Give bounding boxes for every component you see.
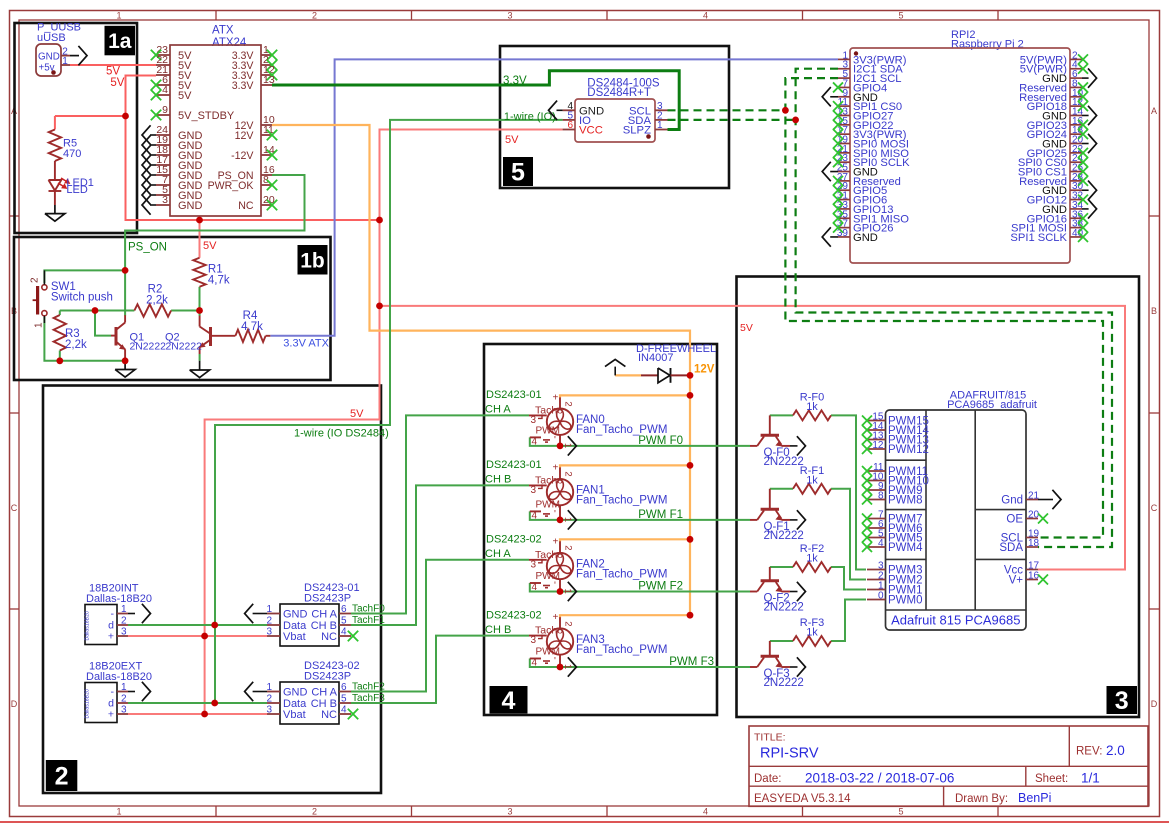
net label 5V (box3) bbox=[740, 322, 753, 334]
svg-text:SLPZ: SLPZ bbox=[623, 125, 651, 137]
ground flag 18B20INT pin1 bbox=[128, 604, 151, 623]
section box 1b bbox=[14, 237, 331, 380]
svg-text:1b: 1b bbox=[300, 249, 325, 272]
wire TachF2 bbox=[351, 560, 529, 692]
svg-text:1: 1 bbox=[116, 11, 121, 21]
svg-text:1: 1 bbox=[121, 604, 127, 615]
svg-text:1k: 1k bbox=[806, 627, 818, 639]
svg-text:3.3V: 3.3V bbox=[232, 80, 255, 92]
svg-text:3: 3 bbox=[531, 485, 537, 496]
svg-text:Tacho: Tacho bbox=[535, 474, 563, 486]
wire DS2484 SCL dashed bbox=[668, 109, 786, 111]
svg-text:4: 4 bbox=[502, 687, 516, 715]
ground flag FAN0 bbox=[568, 436, 577, 455]
wire TachF1 bbox=[351, 485, 529, 625]
wire diode anode 12V bbox=[615, 374, 641, 376]
svg-text:2,2k: 2,2k bbox=[146, 295, 168, 307]
net label 1-wire (IO DS2484) bbox=[294, 428, 389, 440]
svg-text:2: 2 bbox=[266, 616, 272, 627]
net label 5V (DS2484) bbox=[505, 134, 519, 146]
svg-text:TITLE:: TITLE: bbox=[754, 732, 786, 744]
ground Q2 bbox=[190, 361, 210, 378]
svg-text:5V_STDBY: 5V_STDBY bbox=[178, 110, 235, 122]
svg-text:Fan_Tacho_PWM: Fan_Tacho_PWM bbox=[576, 569, 667, 581]
wire R-F left leads bbox=[770, 415, 793, 641]
svg-text:Fan_Tacho_PWM: Fan_Tacho_PWM bbox=[576, 495, 667, 507]
svg-text:LED: LED bbox=[66, 184, 87, 196]
svg-text:Tacho: Tacho bbox=[535, 625, 563, 637]
svg-text:3: 3 bbox=[1115, 687, 1129, 715]
ground flag DS2484 pin4 bbox=[549, 101, 563, 120]
net label 5V (uUSB) bbox=[106, 66, 120, 78]
ground flag FAN1 bbox=[568, 510, 577, 529]
transistor Q-F1 2N2222 bbox=[750, 489, 804, 542]
wire 5V branch to R5 bbox=[55, 116, 126, 130]
svg-text:CH A: CH A bbox=[311, 609, 337, 621]
wire 5V net vertical x125 bbox=[126, 76, 380, 221]
svg-text:IN4007: IN4007 bbox=[638, 352, 673, 364]
svg-text:2: 2 bbox=[55, 763, 69, 791]
svg-text:4: 4 bbox=[703, 807, 708, 817]
svg-text:1: 1 bbox=[62, 56, 68, 67]
svg-text:1: 1 bbox=[116, 807, 121, 817]
svg-text:PWM12: PWM12 bbox=[888, 444, 929, 456]
wire 12V branch fan3 bbox=[560, 615, 690, 618]
section box 5 bbox=[500, 46, 729, 188]
svg-text:1: 1 bbox=[562, 589, 573, 594]
wire TachF3 bbox=[351, 636, 529, 703]
transistor Q-F0 2N2222 bbox=[750, 415, 804, 468]
transistor Q-F2 2N2222 bbox=[750, 567, 804, 614]
wire 12V branch fan1 bbox=[560, 465, 690, 468]
diode D-FREEWHEEL IN4007 bbox=[636, 343, 716, 383]
svg-text:5V: 5V bbox=[203, 240, 217, 252]
svg-text:TachF1: TachF1 bbox=[352, 615, 385, 626]
svg-text:2: 2 bbox=[312, 11, 317, 21]
svg-text:Fan_Tacho_PWM: Fan_Tacho_PWM bbox=[576, 424, 667, 436]
svg-text:3,3V: 3,3V bbox=[503, 75, 527, 87]
svg-text:Adafruit 815 PCA9685: Adafruit 815 PCA9685 bbox=[891, 613, 1020, 628]
svg-text:+: + bbox=[553, 536, 559, 547]
ground flag Q-F1 emitter bbox=[790, 510, 806, 529]
svg-text:Tacho: Tacho bbox=[535, 549, 563, 561]
svg-text:Dallas18B20: Dallas18B20 bbox=[85, 611, 91, 641]
svg-text:+: + bbox=[553, 462, 559, 473]
svg-text:ATX: ATX bbox=[212, 25, 234, 37]
wire Data row DS2423-01 bbox=[128, 624, 267, 626]
svg-text:C: C bbox=[1151, 503, 1158, 513]
net label TachF1 bbox=[352, 615, 385, 626]
wire PS_ON net from ATX pin16 bbox=[125, 175, 304, 316]
svg-text:NC: NC bbox=[321, 709, 337, 721]
net label 3.3V ATX bbox=[283, 338, 329, 350]
svg-text:+: + bbox=[108, 631, 114, 643]
wire PWM F3 bbox=[530, 659, 750, 668]
ground LED1 bbox=[45, 205, 65, 221]
svg-text:5V: 5V bbox=[106, 66, 120, 78]
title block bbox=[749, 726, 1148, 806]
svg-text:Dallas-18B20: Dallas-18B20 bbox=[86, 671, 152, 683]
net label 5V (pin21) bbox=[110, 77, 124, 89]
svg-text:D: D bbox=[1151, 699, 1158, 709]
svg-text:1: 1 bbox=[266, 682, 272, 693]
svg-text:TachF2: TachF2 bbox=[352, 682, 385, 693]
wire 12V branch fan0 bbox=[560, 395, 690, 398]
net label PWM F1 bbox=[638, 509, 683, 521]
wire Data row DS2423-02 bbox=[128, 702, 267, 704]
svg-text:2.0: 2.0 bbox=[1106, 743, 1125, 758]
svg-text:Fan_Tacho_PWM: Fan_Tacho_PWM bbox=[576, 644, 667, 656]
svg-text:4,7k: 4,7k bbox=[241, 321, 263, 333]
sensor 18B20INT Dallas-18B20 bbox=[85, 583, 153, 645]
wire 5V net uUSB to ATX pin22 bbox=[70, 64, 156, 66]
net label 12V bbox=[694, 364, 715, 376]
svg-text:DS2423-01: DS2423-01 bbox=[486, 459, 542, 471]
svg-text:2: 2 bbox=[121, 694, 127, 705]
wire R-F3 to PCA PWM0 bbox=[831, 600, 866, 642]
net label DS2423-01 CH A bbox=[485, 389, 542, 416]
section box 2 bbox=[43, 386, 381, 794]
net label DS2423-01 CH B bbox=[485, 459, 542, 486]
svg-text:A: A bbox=[1151, 106, 1157, 116]
net label PWM F0 bbox=[638, 435, 683, 447]
svg-text:2: 2 bbox=[312, 807, 317, 817]
svg-text:5V: 5V bbox=[110, 77, 124, 89]
svg-text:5: 5 bbox=[898, 11, 903, 21]
svg-text:1k: 1k bbox=[806, 401, 818, 413]
svg-text:GND: GND bbox=[853, 232, 878, 244]
fan FAN1 Fan_Tacho_PWM bbox=[529, 462, 667, 522]
svg-text:PWM F2: PWM F2 bbox=[638, 581, 683, 593]
wire 5V into box3 to PCA Vcc bbox=[380, 306, 1126, 570]
svg-text:13: 13 bbox=[263, 74, 275, 86]
svg-text:PS_ON: PS_ON bbox=[128, 242, 167, 254]
switch SW1 Switch push bbox=[30, 270, 113, 328]
svg-text:DS2423-02: DS2423-02 bbox=[486, 610, 542, 622]
ground Q1 bbox=[115, 361, 135, 377]
wire 5V vertical to DS2484 VCC and section2 bbox=[205, 130, 563, 715]
svg-text:': ' bbox=[554, 581, 556, 592]
svg-text:DS2423-02: DS2423-02 bbox=[486, 534, 542, 546]
connector RPI2 Raspberry Pi 2 bbox=[837, 29, 1084, 263]
svg-text:': ' bbox=[554, 435, 556, 446]
net label DS2423-02 CH A bbox=[485, 534, 542, 561]
ground flag 18B20EXT pin1 bbox=[128, 682, 151, 701]
svg-text:5V: 5V bbox=[178, 90, 192, 102]
svg-text:+: + bbox=[553, 392, 559, 403]
svg-text:PWM8: PWM8 bbox=[888, 495, 923, 507]
svg-text:1/1: 1/1 bbox=[1081, 771, 1100, 786]
transistor Q-F3 2N2222 bbox=[750, 641, 804, 689]
ground flag diode anode bbox=[605, 359, 625, 375]
svg-text:1k: 1k bbox=[806, 474, 818, 486]
svg-text:PWR_OK: PWR_OK bbox=[208, 180, 254, 192]
net label 5V (section2) bbox=[350, 408, 364, 420]
ground flag PCA9685 Gnd bbox=[1038, 490, 1061, 509]
net label 1-wire (IO) bbox=[504, 111, 556, 123]
svg-text:5V: 5V bbox=[505, 134, 519, 146]
svg-text:PWM: PWM bbox=[536, 499, 560, 510]
wire R3 bottom to gnd rail bbox=[59, 351, 61, 361]
net label PWM F3 bbox=[669, 656, 714, 668]
svg-text:3: 3 bbox=[531, 415, 537, 426]
svg-text:TachF0: TachF0 bbox=[352, 604, 385, 615]
svg-text:2: 2 bbox=[121, 616, 127, 627]
svg-text:GND: GND bbox=[283, 609, 308, 621]
resistor R-F3 1k bbox=[793, 617, 831, 646]
wire R-F0 to PCA PWM3 bbox=[831, 415, 866, 569]
svg-text:CH B: CH B bbox=[485, 624, 511, 636]
svg-text:-12V: -12V bbox=[231, 150, 254, 162]
svg-text:2N2222: 2N2222 bbox=[764, 677, 804, 689]
svg-text:uUSB: uUSB bbox=[37, 32, 66, 44]
resistor R2 2,2k bbox=[134, 284, 171, 317]
svg-text:TachF3: TachF3 bbox=[352, 693, 385, 704]
svg-text:2N2222: 2N2222 bbox=[764, 456, 804, 468]
fan FAN3 Fan_Tacho_PWM bbox=[529, 612, 667, 669]
net label 3,3V bbox=[503, 75, 527, 87]
svg-text:2N2222: 2N2222 bbox=[130, 342, 167, 353]
svg-text:3: 3 bbox=[531, 635, 537, 646]
wire I2C SDA dashed RPI pin3 to DS2484/PCA bbox=[796, 69, 1112, 547]
wire PWM F2 bbox=[530, 583, 750, 592]
connector ATX ATX24 bbox=[151, 25, 261, 217]
svg-text:16: 16 bbox=[1028, 571, 1040, 582]
transistor Q1 2N2222 bbox=[111, 315, 166, 361]
wire PWM F1 bbox=[530, 511, 750, 520]
svg-text:Sheet:: Sheet: bbox=[1035, 773, 1068, 785]
svg-text:Gnd: Gnd bbox=[1001, 495, 1023, 507]
svg-text:1a: 1a bbox=[108, 30, 132, 53]
svg-text:PWM: PWM bbox=[536, 571, 560, 582]
ground flag DS2423-02 pin1 bbox=[245, 682, 267, 701]
resistor R4 4,7k bbox=[212, 310, 271, 342]
fan FAN2 Fan_Tacho_PWM bbox=[529, 536, 667, 593]
net label PS_ON bbox=[128, 242, 167, 254]
svg-text:CH A: CH A bbox=[485, 404, 511, 416]
ground flag FAN2 bbox=[568, 582, 577, 601]
svg-text:BenPi: BenPi bbox=[1018, 791, 1051, 805]
svg-text:3: 3 bbox=[266, 705, 272, 716]
svg-text:PWM: PWM bbox=[536, 647, 560, 658]
svg-text:6: 6 bbox=[341, 682, 347, 693]
svg-text:5: 5 bbox=[898, 807, 903, 817]
PCA9685 left pins PWM15-PWM0 bbox=[862, 412, 930, 607]
counter DS2423-01 DS2423P bbox=[266, 582, 359, 646]
net label TachF2 bbox=[352, 682, 385, 693]
wire 12V branch fan2 bbox=[560, 539, 690, 542]
svg-text:4: 4 bbox=[532, 510, 538, 521]
svg-text:Drawn By:: Drawn By: bbox=[955, 793, 1008, 805]
svg-text:2: 2 bbox=[563, 471, 574, 476]
svg-text:2: 2 bbox=[563, 545, 574, 550]
svg-text:20: 20 bbox=[1028, 510, 1040, 521]
svg-text:4: 4 bbox=[878, 538, 884, 549]
svg-text:CH A: CH A bbox=[311, 687, 337, 699]
wire 12V vertical in box4 bbox=[689, 375, 691, 615]
svg-text:12V: 12V bbox=[235, 130, 255, 142]
sensor 18B20EXT Dallas-18B20 bbox=[85, 661, 153, 723]
svg-text:OE: OE bbox=[1006, 514, 1023, 526]
svg-text:PWM F0: PWM F0 bbox=[638, 435, 683, 447]
svg-text:DS2423P: DS2423P bbox=[304, 671, 351, 683]
ATX right pins bbox=[208, 44, 278, 212]
ground flag Q-F2 emitter bbox=[790, 582, 806, 601]
svg-text:12V: 12V bbox=[694, 364, 715, 376]
ground flag Q-F3 emitter bbox=[790, 657, 806, 676]
svg-text:1: 1 bbox=[657, 120, 663, 131]
svg-text:1: 1 bbox=[266, 604, 272, 615]
no-connect X DS2423-01 pin4 bbox=[348, 631, 358, 641]
counter DS2423-02 DS2423P bbox=[266, 660, 359, 724]
svg-text:12: 12 bbox=[872, 440, 884, 451]
resistor R5 470 bbox=[49, 130, 82, 181]
resistor R-F0 1k bbox=[793, 391, 831, 420]
svg-text:GND: GND bbox=[283, 687, 308, 699]
net label TachF0 bbox=[352, 604, 385, 615]
svg-text:-: - bbox=[111, 608, 115, 620]
svg-text:+: + bbox=[553, 612, 559, 623]
svg-text:5V: 5V bbox=[350, 408, 364, 420]
svg-text:CH B: CH B bbox=[485, 474, 511, 486]
wire R-F2 to PCA PWM1 bbox=[831, 567, 866, 590]
wire TachF0 bbox=[351, 415, 529, 613]
svg-text:+: + bbox=[108, 709, 114, 721]
wire 12V orange from ATX pin10 bbox=[272, 125, 690, 375]
svg-text:3.3V ATX: 3.3V ATX bbox=[283, 338, 329, 350]
svg-text:ATX24: ATX24 bbox=[212, 37, 247, 49]
svg-text:1: 1 bbox=[562, 443, 573, 448]
svg-text:39: 39 bbox=[837, 228, 849, 239]
resistor R3 2,2k bbox=[54, 315, 87, 351]
svg-text:2: 2 bbox=[563, 621, 574, 626]
wire 3.3V ATX slate blue net bbox=[270, 59, 838, 335]
svg-text:Dallas-18B20: Dallas-18B20 bbox=[86, 593, 152, 605]
wire R-F1 to PCA PWM2 bbox=[831, 489, 866, 580]
svg-text:3: 3 bbox=[162, 194, 168, 206]
svg-text:': ' bbox=[554, 509, 556, 520]
svg-text:2N2222: 2N2222 bbox=[764, 530, 804, 542]
wire Q1 base node bbox=[60, 310, 200, 312]
svg-text:Vbat: Vbat bbox=[283, 709, 306, 721]
svg-text:RPI-SRV: RPI-SRV bbox=[760, 746, 819, 762]
svg-text:1: 1 bbox=[562, 664, 573, 669]
wire 1-wire IO net bbox=[215, 120, 563, 703]
connector P_UUSB uUSB bbox=[36, 22, 81, 77]
ic ADAFRUIT/815 PCA9685_adafruit bbox=[886, 390, 1038, 630]
svg-text:470: 470 bbox=[63, 148, 81, 160]
svg-text:CH A: CH A bbox=[485, 548, 511, 560]
net label 5V (1b R1) bbox=[203, 240, 217, 252]
svg-text:REV:: REV: bbox=[1076, 746, 1102, 758]
svg-text:2: 2 bbox=[30, 277, 41, 283]
svg-text:9: 9 bbox=[162, 104, 168, 116]
wire R1 bottom to R2 node bbox=[199, 287, 201, 311]
svg-text:8: 8 bbox=[878, 491, 884, 502]
no-connect X marks RPI bbox=[833, 54, 1088, 242]
ground flag Q-F0 emitter bbox=[790, 436, 806, 455]
svg-text:6: 6 bbox=[567, 120, 573, 131]
svg-text:21: 21 bbox=[1028, 491, 1040, 502]
svg-text:1k: 1k bbox=[806, 553, 818, 565]
svg-text:B: B bbox=[1151, 306, 1157, 316]
transistor Q2 2N2222 (mirrored) bbox=[165, 311, 212, 361]
wire SW1 top to PS_ON bbox=[44, 270, 125, 283]
ground flag DS2423-01 pin1 bbox=[245, 604, 267, 623]
LED1 LED bbox=[49, 177, 94, 205]
svg-text:Vbat: Vbat bbox=[283, 631, 306, 643]
svg-text:3: 3 bbox=[266, 627, 272, 638]
svg-text:C: C bbox=[11, 503, 18, 513]
svg-text:EASYEDA V5.3.14: EASYEDA V5.3.14 bbox=[754, 793, 851, 805]
svg-text:4: 4 bbox=[162, 84, 168, 96]
ic U-DS2484 DS2484-100S DS2484R+T bbox=[563, 77, 668, 142]
svg-text:DS2423-01: DS2423-01 bbox=[486, 389, 542, 401]
wire PWM F0 bbox=[530, 437, 750, 446]
svg-text:1-wire (IO DS2484): 1-wire (IO DS2484) bbox=[294, 428, 389, 440]
svg-text:DS2484R+T: DS2484R+T bbox=[587, 87, 651, 99]
svg-text:3: 3 bbox=[507, 807, 512, 817]
wire base node drop to Q1 base bbox=[95, 311, 111, 336]
svg-text:4: 4 bbox=[532, 436, 538, 447]
svg-text:4: 4 bbox=[341, 627, 347, 638]
svg-text:2018-03-22 / 2018-07-06: 2018-03-22 / 2018-07-06 bbox=[805, 771, 954, 786]
svg-text:2: 2 bbox=[266, 694, 272, 705]
svg-text:PWM: PWM bbox=[536, 425, 560, 436]
resistor R1 4,7k bbox=[193, 258, 230, 287]
svg-text:5: 5 bbox=[511, 159, 525, 187]
svg-text:4,7k: 4,7k bbox=[208, 274, 230, 286]
wire Vbat row DS2423-02 bbox=[128, 713, 267, 715]
svg-text:3: 3 bbox=[121, 705, 127, 716]
svg-text:Dallas18B20: Dallas18B20 bbox=[85, 689, 91, 719]
ground flags ATX GND pins bbox=[142, 125, 156, 214]
svg-text:18: 18 bbox=[1028, 538, 1040, 549]
svg-text:4: 4 bbox=[532, 582, 538, 593]
svg-text:1-wire (IO): 1-wire (IO) bbox=[504, 111, 556, 123]
PCA9685 right pins bbox=[999, 491, 1048, 587]
resistor R-F2 1k bbox=[793, 543, 831, 572]
no-connect X DS2423-02 pin4 bbox=[348, 709, 358, 719]
svg-text:1: 1 bbox=[562, 517, 573, 522]
svg-text:GND: GND bbox=[38, 52, 60, 63]
svg-text:V+: V+ bbox=[1009, 575, 1024, 587]
svg-text:DS2423P: DS2423P bbox=[304, 593, 351, 605]
svg-text:2,2k: 2,2k bbox=[65, 339, 87, 351]
ground flag FAN3 bbox=[568, 657, 577, 676]
svg-text:PWM F3: PWM F3 bbox=[669, 656, 714, 668]
net label PWM F2 bbox=[638, 581, 683, 593]
svg-text:2N2222: 2N2222 bbox=[764, 602, 804, 614]
svg-text:4: 4 bbox=[532, 658, 538, 669]
red sheet bottom line bbox=[0, 821, 1169, 823]
ground flags RPI right bbox=[1082, 68, 1097, 218]
svg-text:2N2222: 2N2222 bbox=[166, 342, 203, 353]
svg-text:PWM0: PWM0 bbox=[888, 595, 923, 607]
svg-text:VCC: VCC bbox=[579, 125, 603, 137]
svg-text:4: 4 bbox=[341, 705, 347, 716]
svg-text:': ' bbox=[554, 656, 556, 667]
svg-text:0: 0 bbox=[878, 591, 884, 602]
section box 1a bbox=[15, 23, 138, 233]
svg-text:PWM4: PWM4 bbox=[888, 542, 923, 554]
svg-text:4: 4 bbox=[703, 11, 708, 21]
wire DS2484 SDA dashed bbox=[668, 119, 796, 121]
wire thick 3,3V green from ATX pin13 bbox=[272, 71, 679, 130]
net label TachF3 bbox=[352, 693, 385, 704]
section box 4 bbox=[484, 344, 717, 715]
net label DS2423-02 CH B bbox=[485, 610, 542, 637]
